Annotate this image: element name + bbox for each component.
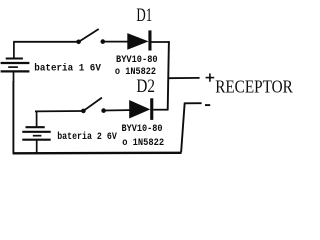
- svg-text:bateria 2 6V: bateria 2 6V: [57, 131, 117, 143]
- wire to receptor plus terminal: [168, 77, 199, 79]
- plus terminal: [206, 73, 215, 81]
- wire switch S1 to diode D1: [103, 41, 128, 43]
- switch S1: [76, 29, 105, 44]
- svg-text:RECEPTOR: RECEPTOR: [215, 76, 293, 96]
- svg-text:o 1N5822: o 1N5822: [122, 137, 164, 149]
- battery B1: [1, 42, 30, 82]
- svg-text:D2: D2: [136, 76, 155, 97]
- svg-text:D1: D1: [136, 5, 152, 26]
- wire diode D2 to node junction: [153, 109, 168, 111]
- svg-text:BYV10-80: BYV10-80: [122, 123, 163, 135]
- wire battery B1 bottom to return bus: [12, 81, 14, 153]
- battery B2: [22, 111, 50, 153]
- wire battery B2 top to switch S2: [35, 110, 82, 112]
- minus terminal: [205, 104, 210, 106]
- wire battery B1 top to switch S1: [13, 41, 77, 43]
- switch S2: [81, 98, 106, 114]
- wire bottom return bus: [13, 152, 182, 155]
- wire right bus vertical: [168, 41, 169, 110]
- wire diode D1 to node junction: [152, 41, 170, 43]
- diode D2: [129, 98, 153, 120]
- wire receptor minus vertical: [181, 103, 185, 153]
- svg-text:BYV10-80: BYV10-80: [116, 54, 158, 66]
- wire switch S2 to diode D2: [104, 109, 130, 111]
- diode D1: [127, 30, 151, 50]
- svg-text:bateria 1 6V: bateria 1 6V: [34, 63, 101, 75]
- wire receptor minus horizontal: [184, 102, 202, 104]
